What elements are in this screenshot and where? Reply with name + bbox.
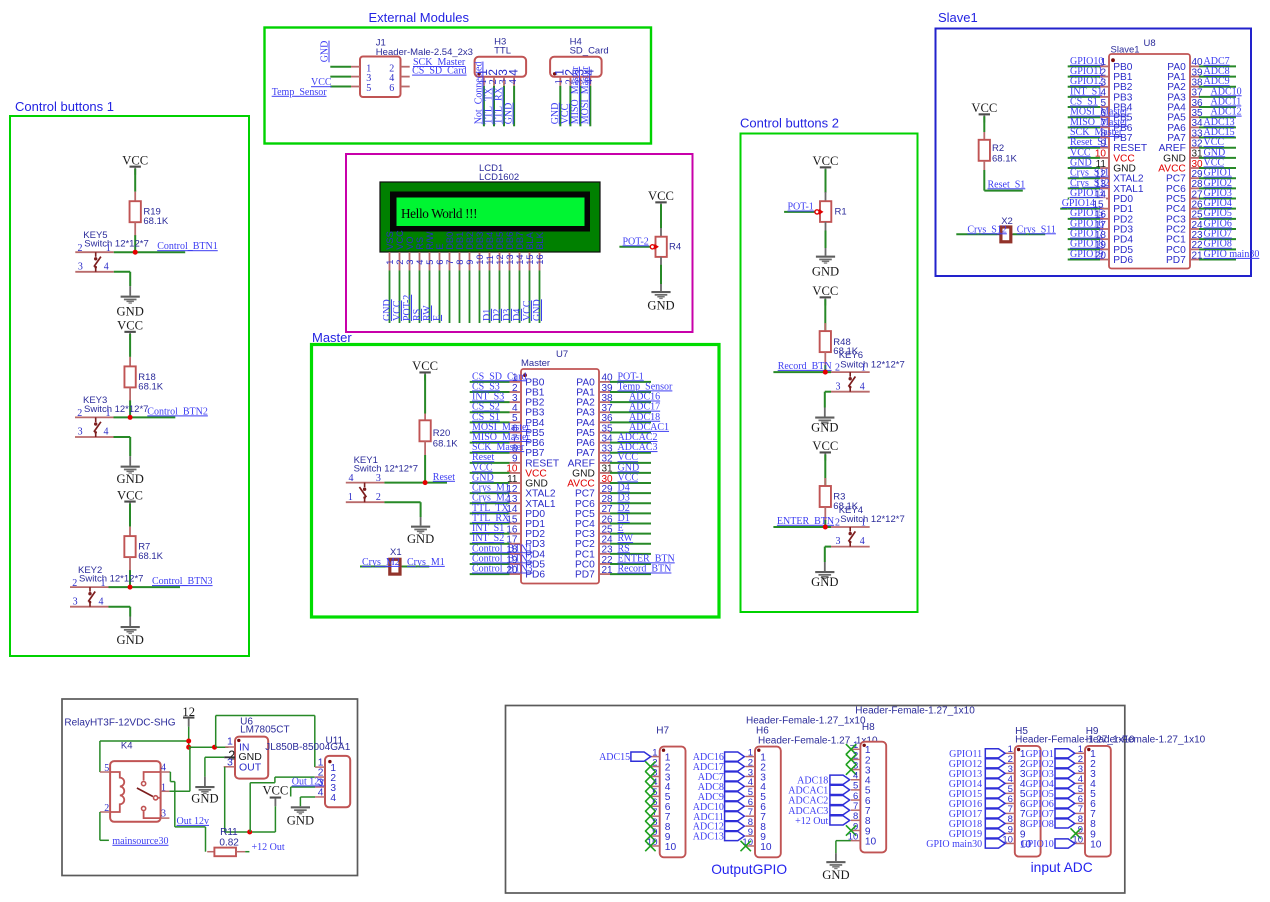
pin 27 PC5 — [1166, 189, 1203, 205]
wire POT-1 wiper — [784, 211, 815, 213]
svg-text:BLK: BLK — [535, 231, 545, 249]
wire pin 19 — [470, 563, 510, 565]
wire pin 4 — [1068, 96, 1100, 98]
svg-text:Control_BTN1: Control_BTN1 — [157, 241, 218, 252]
crystal X1 — [386, 547, 402, 574]
svg-text:GND: GND — [407, 532, 434, 546]
svg-text:12: 12 — [495, 254, 505, 264]
wire pin 20 — [470, 573, 510, 575]
svg-text:LM7805CT: LM7805CT — [240, 725, 289, 736]
pin 16 PD2 — [1095, 210, 1133, 226]
pin 11 GND — [507, 474, 548, 490]
wire LCD pin 6 — [439, 271, 441, 324]
pin 2 — [746, 766, 756, 768]
wire pin 36 — [610, 421, 651, 423]
wire pin 4 — [470, 411, 510, 413]
svg-text:ADC15: ADC15 — [599, 752, 630, 763]
wire pin 28 — [1199, 187, 1236, 189]
pin 1 — [1005, 752, 1015, 754]
group box Master — [312, 345, 720, 618]
pin 28 PC6 — [575, 494, 613, 510]
pin 24 PC2 — [575, 535, 613, 551]
wire pin 32 — [610, 462, 651, 464]
pin 39 PA1 — [576, 383, 613, 399]
pin 39 PA1 — [1167, 67, 1203, 83]
wire LCD pin 13 — [509, 271, 511, 324]
svg-text:Switch 12*12*7: Switch 12*12*7 — [84, 404, 148, 415]
wire R48 to junction — [824, 365, 826, 372]
pin 40 PA0 — [1167, 57, 1203, 73]
wire switch to GND — [109, 606, 131, 608]
wire pin 5 — [1068, 106, 1100, 108]
net flag GPIO8 — [1055, 819, 1075, 828]
svg-text:VCC: VCC — [395, 230, 405, 250]
wire pin 40 — [610, 381, 651, 383]
svg-text:11: 11 — [485, 255, 495, 265]
pin 10 — [650, 845, 660, 847]
pin 3 — [851, 769, 861, 771]
svg-text:4: 4 — [104, 427, 109, 438]
svg-text:15: 15 — [525, 254, 535, 264]
wire pin 9 — [470, 462, 510, 464]
svg-text:DB5: DB5 — [495, 232, 505, 250]
pin 6 — [650, 805, 660, 807]
net flag ADCAC2 — [830, 795, 850, 804]
net flag ADC16 — [725, 752, 745, 761]
pin 3 — [1005, 772, 1015, 774]
pin 6 PB5 — [1100, 108, 1133, 124]
svg-text:VCC: VCC — [971, 101, 997, 115]
svg-text:R2: R2 — [992, 143, 1004, 154]
net flag GPIO15 — [985, 789, 1005, 798]
wire pin 37 — [610, 411, 651, 413]
svg-text:Temp_Sensor: Temp_Sensor — [272, 87, 328, 98]
svg-text:1: 1 — [106, 408, 111, 419]
wire H4 pin 3 — [579, 86, 581, 127]
resistor R48 — [820, 323, 831, 366]
no-connect pin 5 — [645, 791, 655, 801]
svg-text:GPIO main30: GPIO main30 — [1204, 249, 1260, 260]
no-connect pin 3 — [645, 771, 655, 781]
svg-text:+12 Out: +12 Out — [252, 842, 285, 853]
wire VCC to R3 — [824, 454, 826, 494]
svg-text:Out 12v: Out 12v — [177, 816, 210, 827]
wire H4 pin 2 — [569, 86, 571, 127]
wire H3 pin 4 — [513, 86, 515, 127]
svg-text:4: 4 — [330, 793, 336, 804]
pin 15 PD1 — [1095, 199, 1133, 215]
wire node Control_BTN3 — [130, 586, 180, 588]
pin 20 PD6 — [506, 565, 545, 581]
pin 26 PC4 — [575, 514, 613, 530]
wire H8 pin10 to GND — [836, 840, 851, 842]
wiper arrow — [815, 210, 819, 214]
svg-text:14: 14 — [515, 254, 525, 264]
resistor R20 — [419, 414, 430, 456]
svg-text:E: E — [435, 244, 445, 250]
pin K4 5 — [100, 771, 110, 773]
net flag ADCAC3 — [830, 806, 850, 815]
wire pin 8 — [1068, 137, 1100, 139]
wire pin 1 — [1068, 65, 1100, 67]
wire switch to GND — [825, 546, 831, 548]
svg-text:GPIO10: GPIO10 — [1020, 839, 1053, 850]
pin 20 PD6 — [1095, 250, 1133, 266]
svg-text:Control buttons 1: Control buttons 1 — [15, 99, 114, 114]
switch KEY1 — [346, 455, 418, 503]
wire H4 pin 4 — [589, 86, 591, 127]
wire H4 pin 1 — [559, 86, 561, 127]
LCD pin 16 — [539, 252, 541, 271]
svg-text:MOSI_Master: MOSI_Master — [580, 66, 591, 124]
wire pin 28 — [610, 502, 651, 504]
power VCC symbol — [812, 439, 838, 460]
pin 5 — [851, 789, 861, 791]
net flag ADC10 — [725, 802, 745, 811]
wire pin 10 — [1068, 157, 1100, 159]
wire pin 17 — [470, 543, 510, 545]
pin 28 PC6 — [1166, 179, 1203, 195]
wire pin 35 — [1199, 116, 1236, 118]
svg-text:Reset: Reset — [433, 472, 455, 483]
pin 40 PA0 — [576, 373, 613, 389]
LCD pin 14 — [519, 252, 521, 271]
group box LCD1 — [346, 154, 693, 332]
pin 8 PB7 — [510, 444, 545, 460]
svg-text:3: 3 — [376, 473, 381, 484]
svg-text:4: 4 — [318, 788, 324, 799]
pin U11 4 — [315, 796, 325, 798]
wire pin 38 — [610, 401, 651, 403]
no-connect pin 9 — [846, 825, 856, 835]
svg-text:U7: U7 — [556, 349, 568, 360]
pin 34 PA6 — [576, 433, 613, 449]
no-connect pin 7 — [645, 811, 655, 821]
wire pin 9 — [1068, 147, 1100, 149]
resistor R2 — [979, 132, 990, 170]
svg-text:2: 2 — [77, 408, 82, 419]
crystal X2 — [997, 216, 1013, 242]
junction — [128, 585, 133, 590]
wire LCD pin 14 — [519, 271, 521, 324]
pin 5 PB4 — [1100, 98, 1133, 114]
svg-text:2: 2 — [835, 363, 840, 374]
svg-text:GND: GND — [117, 305, 144, 319]
net flag GPIO4 — [1055, 779, 1075, 788]
IC U8 Slave1 — [1109, 38, 1190, 269]
pin 4 PB3 — [1100, 88, 1133, 104]
wire top rail to U11 — [216, 715, 315, 717]
pin 2 PB1 — [1100, 67, 1133, 83]
LCD pin 6 — [439, 252, 441, 271]
wire VCC to R4 — [660, 204, 662, 228]
svg-text:R4: R4 — [669, 242, 681, 253]
junction 5V — [247, 830, 252, 835]
pin 2 PB1 — [510, 383, 545, 399]
wire node Control_BTN1 — [135, 251, 185, 253]
wire LCD pin 9 — [469, 271, 471, 324]
svg-text:20: 20 — [1095, 250, 1107, 261]
svg-text:ADC13: ADC13 — [693, 832, 724, 843]
wire switch to junction — [114, 416, 131, 418]
wire LCD pin 16 — [539, 271, 541, 324]
pin 16 PD2 — [506, 524, 545, 540]
pin stubs J1 right — [401, 66, 410, 68]
svg-text:RelayHT3F-12VDC-SHG: RelayHT3F-12VDC-SHG — [64, 718, 175, 729]
net flag +12 Out — [830, 816, 850, 825]
pin 8 — [1076, 822, 1086, 824]
no-connect pin 10 — [741, 841, 751, 851]
svg-text:H8: H8 — [862, 722, 875, 733]
wire VCC to R2 — [983, 116, 985, 132]
svg-text:Control_BTN2: Control_BTN2 — [147, 406, 208, 417]
wire Crys_M1 — [402, 566, 429, 568]
wire pin 2 — [1068, 76, 1100, 78]
pin U11 2 — [315, 776, 325, 778]
wire ENTER_BTN — [773, 526, 831, 528]
no-connect pin 2 — [846, 754, 856, 764]
pin 2 — [1076, 762, 1086, 764]
wire VCC to junction row — [274, 806, 276, 832]
wire Crys_S12 — [956, 233, 997, 235]
wire K4 pin2 to mainsource30 — [99, 812, 101, 840]
wire K4 pin1 to rail — [169, 790, 190, 792]
pin 7 PB6 — [510, 433, 545, 449]
pin 9 RESET — [510, 454, 560, 470]
pin 21 PD7 — [575, 565, 613, 581]
svg-text:Slave1: Slave1 — [938, 10, 978, 25]
pin 38 PA2 — [576, 393, 613, 409]
LCD pin 11 — [489, 252, 491, 271]
svg-text:3: 3 — [405, 260, 415, 265]
pin 7 — [1005, 812, 1015, 814]
svg-text:Crys_M2: Crys_M2 — [362, 557, 400, 568]
pin 3 — [650, 775, 660, 777]
ground — [811, 417, 838, 435]
net flag ADC17 — [725, 762, 745, 771]
connector body — [1085, 746, 1111, 857]
wire pin 18 — [470, 553, 510, 555]
resistor R18 — [124, 357, 135, 402]
pin 29 PC7 — [1166, 169, 1203, 185]
LCD pin 5 — [429, 252, 431, 271]
svg-text:15: 15 — [1092, 199, 1104, 210]
no-connect pin 2 — [645, 761, 655, 771]
wire pin 7 — [1068, 126, 1100, 128]
svg-text:Switch 12*12*7: Switch 12*12*7 — [354, 464, 418, 475]
wire R3 to junction — [824, 520, 826, 527]
wire pin 29 — [610, 492, 651, 494]
pin 9 — [1005, 832, 1015, 834]
svg-text:68.1K: 68.1K — [138, 381, 163, 392]
wire pin 14 — [1068, 198, 1100, 200]
svg-text:3: 3 — [836, 381, 841, 392]
wire U11 pin4 to GND — [308, 796, 316, 798]
svg-text:CS_SD_Card: CS_SD_Card — [412, 66, 466, 77]
pin 7 — [746, 815, 756, 817]
svg-text:Header-Female-1.27_1x10: Header-Female-1.27_1x10 — [855, 706, 975, 717]
pin K4 1 — [161, 790, 170, 792]
svg-text:VSS: VSS — [385, 231, 395, 250]
pin 4 — [1005, 782, 1015, 784]
wire VCC to R20 — [424, 374, 426, 413]
pin 38 PA2 — [1167, 78, 1203, 94]
wire U6 OUT down — [224, 767, 226, 832]
svg-text:4: 4 — [508, 79, 519, 84]
power VCC symbol — [122, 153, 148, 174]
svg-text:DB4: DB4 — [485, 232, 495, 250]
net flag GPIO12 — [985, 759, 1005, 768]
pin 10 — [746, 845, 756, 847]
IC U7 Master — [521, 349, 599, 584]
wire rail to U6 IN — [189, 746, 229, 748]
ground — [811, 571, 838, 589]
net flag ADC15 — [631, 752, 651, 761]
power VCC symbol — [648, 189, 674, 210]
wire VCC to R1 — [825, 169, 827, 193]
ground — [287, 806, 314, 827]
wire U8 pin 15 extension — [1060, 208, 1068, 210]
wire pin 27 — [610, 512, 651, 514]
pin 35 PA5 — [1167, 108, 1203, 124]
potentiometer R1 — [820, 201, 831, 222]
wire LCD pin 4 — [419, 271, 421, 324]
net flag GPIO19 — [985, 829, 1005, 838]
wire pin 33 — [1199, 137, 1236, 139]
wire pin 7 — [470, 442, 510, 444]
svg-text:VCC: VCC — [812, 439, 838, 453]
pin 17 PD3 — [506, 535, 545, 551]
ground — [407, 526, 434, 547]
svg-text:GND: GND — [822, 868, 849, 882]
svg-text:OutputGPIO: OutputGPIO — [711, 862, 787, 877]
net flag GPIO2 — [1055, 759, 1075, 768]
wire node Control_BTN2 — [130, 416, 175, 418]
wire pin 26 — [1199, 208, 1236, 210]
svg-text:Reset_S1: Reset_S1 — [988, 179, 1026, 190]
svg-text:GPIO14: GPIO14 — [1062, 198, 1095, 209]
wire R18 to junction — [129, 400, 131, 417]
net flag ADC11 — [725, 812, 745, 821]
wire rail to K4 pin5 — [100, 740, 189, 742]
wire pin 32 — [1199, 147, 1236, 149]
power VCC symbol — [971, 101, 997, 122]
svg-text:GND: GND — [811, 575, 838, 589]
svg-text:GPIO8: GPIO8 — [1025, 819, 1053, 830]
svg-text:10: 10 — [865, 836, 877, 847]
pin stubs H3 — [483, 77, 485, 86]
net flag GPIO16 — [985, 799, 1005, 808]
pin 1 — [650, 756, 660, 758]
pin 23 PC1 — [575, 545, 613, 561]
pin U11 1 — [315, 766, 325, 768]
connector U11 JL850B-85004GA1 — [265, 736, 351, 808]
pin 9 — [851, 830, 861, 832]
svg-text:DB1: DB1 — [455, 232, 465, 250]
no-connect pin 9 — [1071, 828, 1081, 838]
wire H3 pin 2 — [493, 86, 495, 127]
pin U6 3 OUT — [224, 766, 235, 768]
LCD pin 8 — [459, 252, 461, 271]
pin 22 PC0 — [1166, 240, 1203, 256]
wire 12 to rail — [188, 727, 190, 748]
pin 10 — [1076, 842, 1086, 844]
power VCC symbol — [117, 319, 143, 340]
connector body — [755, 747, 781, 858]
pin U11 3 — [315, 786, 325, 788]
pin 1 — [1076, 752, 1086, 754]
pin 7 — [851, 809, 861, 811]
pin 4 — [650, 785, 660, 787]
ground — [647, 291, 674, 313]
resistor R7 — [124, 527, 135, 572]
wire R2 to Reset_S1 — [983, 170, 985, 191]
wire J1 pin3 — [330, 76, 351, 78]
wire pin 3 — [1068, 86, 1100, 88]
pin 8 PB7 — [1100, 128, 1133, 144]
wire LCD pin 5 — [429, 271, 431, 324]
connector J1 Header-Male-2.54_2x3 — [360, 38, 473, 97]
potentiometer R4 — [656, 237, 667, 257]
svg-text:Control_BTN3: Control_BTN3 — [152, 576, 213, 587]
pin 5 — [650, 795, 660, 797]
svg-text:10: 10 — [760, 842, 772, 853]
LCD pin names — [385, 230, 545, 250]
pin 3 PB2 — [1100, 78, 1133, 94]
wire pin 14 — [470, 512, 510, 514]
wire pin 21 — [610, 573, 651, 575]
ground — [822, 861, 849, 882]
wire pin 21 — [1199, 258, 1236, 260]
no-connect pin 9 — [645, 831, 655, 841]
svg-text:GND: GND — [504, 103, 515, 125]
wire pin 30 — [1199, 167, 1236, 169]
pin 5 — [1076, 792, 1086, 794]
wire pin 15 — [470, 523, 510, 525]
resistor R3 — [820, 478, 831, 521]
LCD pin 2 — [399, 252, 401, 271]
switch KEY2 — [70, 565, 143, 608]
LCD pin 4 — [419, 252, 421, 271]
wire VCC to R48 — [824, 299, 826, 339]
net flag GPIO10 — [1055, 839, 1075, 848]
LCD display body — [380, 182, 600, 252]
wire KEY1 to junction — [384, 482, 425, 484]
svg-text:2: 2 — [376, 492, 381, 503]
pin 7 — [650, 815, 660, 817]
no-connect pin 6 — [645, 801, 655, 811]
svg-text:Record_BTN: Record_BTN — [778, 361, 832, 372]
pin 33 PA7 — [1167, 128, 1203, 144]
pin 4 — [1076, 782, 1086, 784]
pin 4 — [851, 779, 861, 781]
svg-text:6: 6 — [435, 260, 445, 265]
wire pin 25 — [610, 533, 651, 535]
svg-text:68.1K: 68.1K — [433, 439, 458, 450]
LCD pin 1 — [389, 252, 391, 271]
wire KEY1 to GND — [384, 501, 420, 503]
power VCC symbol — [412, 359, 438, 380]
net flag ADC13 — [725, 831, 745, 840]
svg-text:1: 1 — [227, 735, 233, 747]
svg-text:7: 7 — [445, 260, 455, 265]
wire pin 11 — [1068, 167, 1100, 169]
net flag ADC8 — [725, 782, 745, 791]
svg-text:DB2: DB2 — [465, 232, 475, 250]
svg-text:2: 2 — [395, 260, 405, 265]
wire R7 to junction — [129, 570, 131, 587]
svg-text:GND: GND — [117, 633, 144, 647]
